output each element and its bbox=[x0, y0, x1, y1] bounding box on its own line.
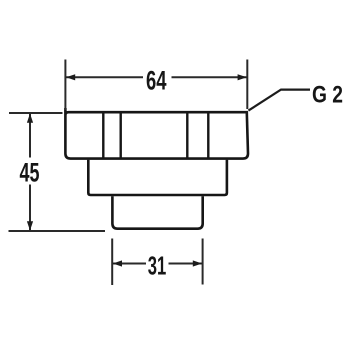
dimension 45: bottom extension line bbox=[9, 230, 106, 232]
dimension 64: right arrowhead bbox=[238, 74, 247, 80]
middle section bbox=[88, 160, 227, 195]
dimension 31: right extension line bbox=[202, 239, 204, 285]
dimension 45: top arrowhead bbox=[27, 114, 33, 123]
svg-text:64: 64 bbox=[146, 64, 167, 95]
svg-text:G 2: G 2 bbox=[312, 81, 343, 108]
nut facet line 3 bbox=[186, 113, 188, 158]
dimension 64: dimension line right segment bbox=[172, 76, 247, 78]
dimension 45: dimension line lower segment bbox=[29, 185, 31, 231]
dimension 45: dimension line upper segment bbox=[29, 114, 31, 158]
nut facet line 2 bbox=[119, 113, 121, 158]
dimension 64: left arrowhead bbox=[66, 74, 75, 80]
nut facet line 1 bbox=[102, 113, 104, 158]
nut facet line 4 bbox=[207, 113, 209, 158]
leader line to thread callout bbox=[248, 90, 310, 111]
dimension 31: right arrowhead bbox=[193, 260, 202, 266]
dimension 64: right extension line bbox=[246, 60, 248, 110]
dimension 31: dimension line left segment bbox=[113, 263, 146, 265]
svg-text:31: 31 bbox=[148, 252, 167, 280]
nut body (top hex section) bbox=[65, 108, 248, 159]
dimension 64: dimension line left segment bbox=[66, 76, 143, 78]
bottom spigot section bbox=[112, 196, 202, 229]
dimension 31: dimension line right segment bbox=[169, 263, 203, 265]
dimension 45: bottom arrowhead bbox=[27, 221, 33, 230]
dimension 31: left arrowhead bbox=[113, 260, 122, 266]
svg-text:45: 45 bbox=[20, 158, 40, 188]
dimension 31: left extension line bbox=[111, 239, 113, 286]
dimension 64: left extension line bbox=[64, 60, 66, 111]
dimension 45: top extension line bbox=[9, 112, 63, 114]
